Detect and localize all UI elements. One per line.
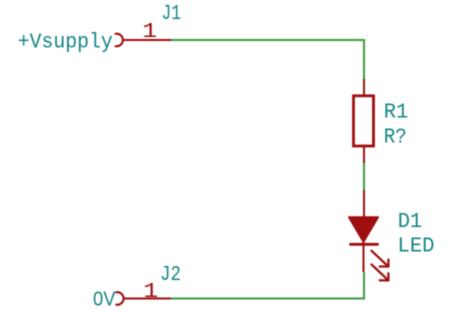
svg-text:0V: 0V: [93, 288, 116, 310]
wire D1 to J2: [171, 272, 364, 299]
svg-text:+Vsupply: +Vsupply: [18, 31, 113, 55]
reference J1: [162, 2, 182, 26]
pin number 1 (J1 pin 1): [142, 20, 157, 44]
value R?: [384, 125, 407, 149]
pin number 1 (J2 pin 1): [143, 280, 158, 304]
reference J2: [160, 263, 181, 287]
LED D1: [349, 190, 379, 272]
net label 0V: [93, 288, 116, 310]
reference D1: [398, 210, 423, 234]
svg-text:R1: R1: [384, 100, 409, 124]
value LED: [398, 234, 435, 258]
wire J1 to R1: [171, 40, 364, 79]
LED D1 light arrows: [371, 250, 389, 280]
svg-text:J1: J1: [162, 2, 182, 26]
svg-text:R?: R?: [384, 125, 407, 149]
svg-text:1: 1: [142, 20, 157, 44]
connector J2: [116, 292, 171, 304]
net label +Vsupply: [18, 31, 113, 55]
svg-text:J2: J2: [160, 263, 181, 287]
svg-text:D1: D1: [398, 210, 423, 234]
reference R1: [384, 100, 409, 124]
svg-text:1: 1: [143, 280, 158, 304]
connector J1: [116, 34, 172, 47]
resistor R1: [354, 79, 374, 163]
svg-text:LED: LED: [398, 234, 435, 258]
wire R1 to D1: [363, 163, 365, 190]
